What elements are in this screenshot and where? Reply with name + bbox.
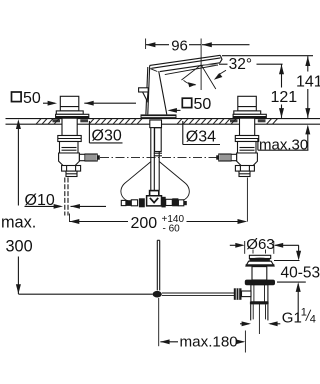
svg-text:300: 300 — [6, 238, 33, 256]
deck counter-top section — [6, 119, 320, 125]
svg-text:Ø34: Ø34 — [186, 128, 216, 145]
spout base plate — [141, 114, 177, 118]
right hose wing — [159, 162, 189, 201]
left flexible hose dashed — [65, 178, 68, 216]
dimension Ø63 arrows — [230, 243, 299, 248]
left handle shaft — [60, 96, 79, 111]
dimension max.180 — [160, 331, 245, 353]
right valve side port neck — [231, 154, 237, 160]
drain body — [251, 285, 268, 302]
horizontal pop-up rod — [162, 293, 234, 295]
max.300 reference plane line — [18, 293, 152, 295]
spout blade — [150, 55, 222, 74]
text G1 1/4 — [282, 306, 316, 326]
mounting stud block — [150, 120, 162, 156]
dimension 121 — [279, 65, 284, 118]
label Ø30 flag — [89, 121, 122, 144]
svg-text:max.30: max.30 — [259, 136, 308, 153]
svg-text:- 60: - 60 — [163, 224, 181, 235]
left hose connector — [121, 198, 144, 207]
dimension 40-53 — [274, 245, 306, 321]
right valve nut — [235, 136, 258, 142]
deck hatch — [36, 119, 278, 125]
svg-text:50: 50 — [194, 96, 212, 113]
label square-50 spout — [182, 96, 211, 113]
pop-up knurled knob — [234, 288, 251, 300]
mixer lever on spout — [139, 88, 149, 101]
label square-50 left handle — [12, 90, 41, 107]
right handle shaft — [238, 96, 256, 111]
dimension max.300 vertical line — [16, 119, 21, 294]
left valve threaded plug — [85, 154, 100, 161]
left handle step — [56, 111, 83, 114]
dimension 200 +140/-60 — [70, 219, 248, 224]
svg-text:40-53: 40-53 — [281, 265, 320, 282]
central shaft below deck — [151, 124, 159, 190]
dimension G1 1/4 — [240, 321, 280, 326]
right valve lower block — [237, 153, 258, 166]
left deck cut wedges — [53, 119, 89, 122]
spout body — [146, 65, 167, 114]
rod lower thin extension — [158, 298, 160, 346]
svg-text:96: 96 — [171, 38, 188, 55]
right deck cut wedges — [230, 119, 266, 122]
dash-dot centerline between side valves — [100, 157, 218, 159]
svg-text:32°: 32° — [229, 56, 252, 73]
pull rod upper — [157, 240, 159, 290]
drain cap dark lens — [249, 258, 270, 263]
dimension 141 — [305, 56, 310, 118]
tee square nut — [150, 191, 159, 196]
spout width leader arrow — [168, 108, 181, 113]
left valve shank below deck — [62, 118, 77, 135]
svg-text:Ø63: Ø63 — [246, 236, 274, 253]
right escutcheon flange on deck — [233, 114, 266, 118]
right valve body — [238, 142, 257, 154]
left escutcheon flange on deck — [56, 114, 89, 118]
141 reference line (spout tip top) — [222, 55, 313, 57]
tee body with V — [147, 196, 162, 206]
Ø63 extension ticks — [245, 241, 274, 254]
right hose connector — [162, 197, 187, 208]
drain cap upper — [249, 255, 270, 258]
label Ø34 flag — [183, 121, 220, 145]
dimension 96 — [146, 42, 250, 47]
right handle step — [234, 111, 261, 114]
label max.30 — [258, 125, 310, 154]
svg-text:1: 1 — [301, 306, 307, 318]
left valve centerline extension — [69, 214, 71, 223]
drain body bottom band — [250, 302, 269, 305]
96 extension right / angle vertex line — [200, 39, 202, 91]
left handle width arrows — [43, 101, 136, 106]
drain tail pipe — [251, 304, 268, 320]
right valve centerline extension — [246, 178, 248, 222]
Ø10 underline and arrows — [25, 204, 107, 209]
svg-text:121: 121 — [271, 89, 298, 106]
left valve side port neck — [79, 154, 85, 160]
drain neck — [252, 267, 267, 280]
svg-text:50: 50 — [23, 90, 41, 107]
left valve tailpiece — [66, 171, 77, 176]
left valve lower block — [59, 153, 80, 166]
pull rod ball joint — [153, 291, 162, 298]
left valve nut — [58, 136, 81, 142]
drain flange — [246, 261, 275, 266]
drain locknut — [245, 280, 275, 286]
right valve threaded plug — [216, 154, 231, 161]
96 extension left — [145, 39, 147, 50]
right valve shank below deck — [240, 118, 255, 135]
svg-text:max.: max. — [1, 214, 36, 232]
right valve bottom hex nut — [235, 166, 254, 172]
left hose wing — [121, 162, 151, 201]
svg-text:Ø30: Ø30 — [92, 127, 122, 144]
right valve tailpiece — [239, 171, 250, 176]
32 degree annotation — [182, 64, 283, 89]
svg-text:141: 141 — [296, 74, 320, 91]
svg-text:max.180: max.180 — [180, 334, 238, 351]
svg-text:200: 200 — [131, 215, 158, 232]
left valve bottom hex nut — [62, 166, 81, 172]
svg-text:4: 4 — [310, 313, 316, 325]
svg-text:G1: G1 — [282, 309, 302, 326]
left valve body — [60, 142, 79, 154]
drain centerline — [258, 302, 260, 334]
